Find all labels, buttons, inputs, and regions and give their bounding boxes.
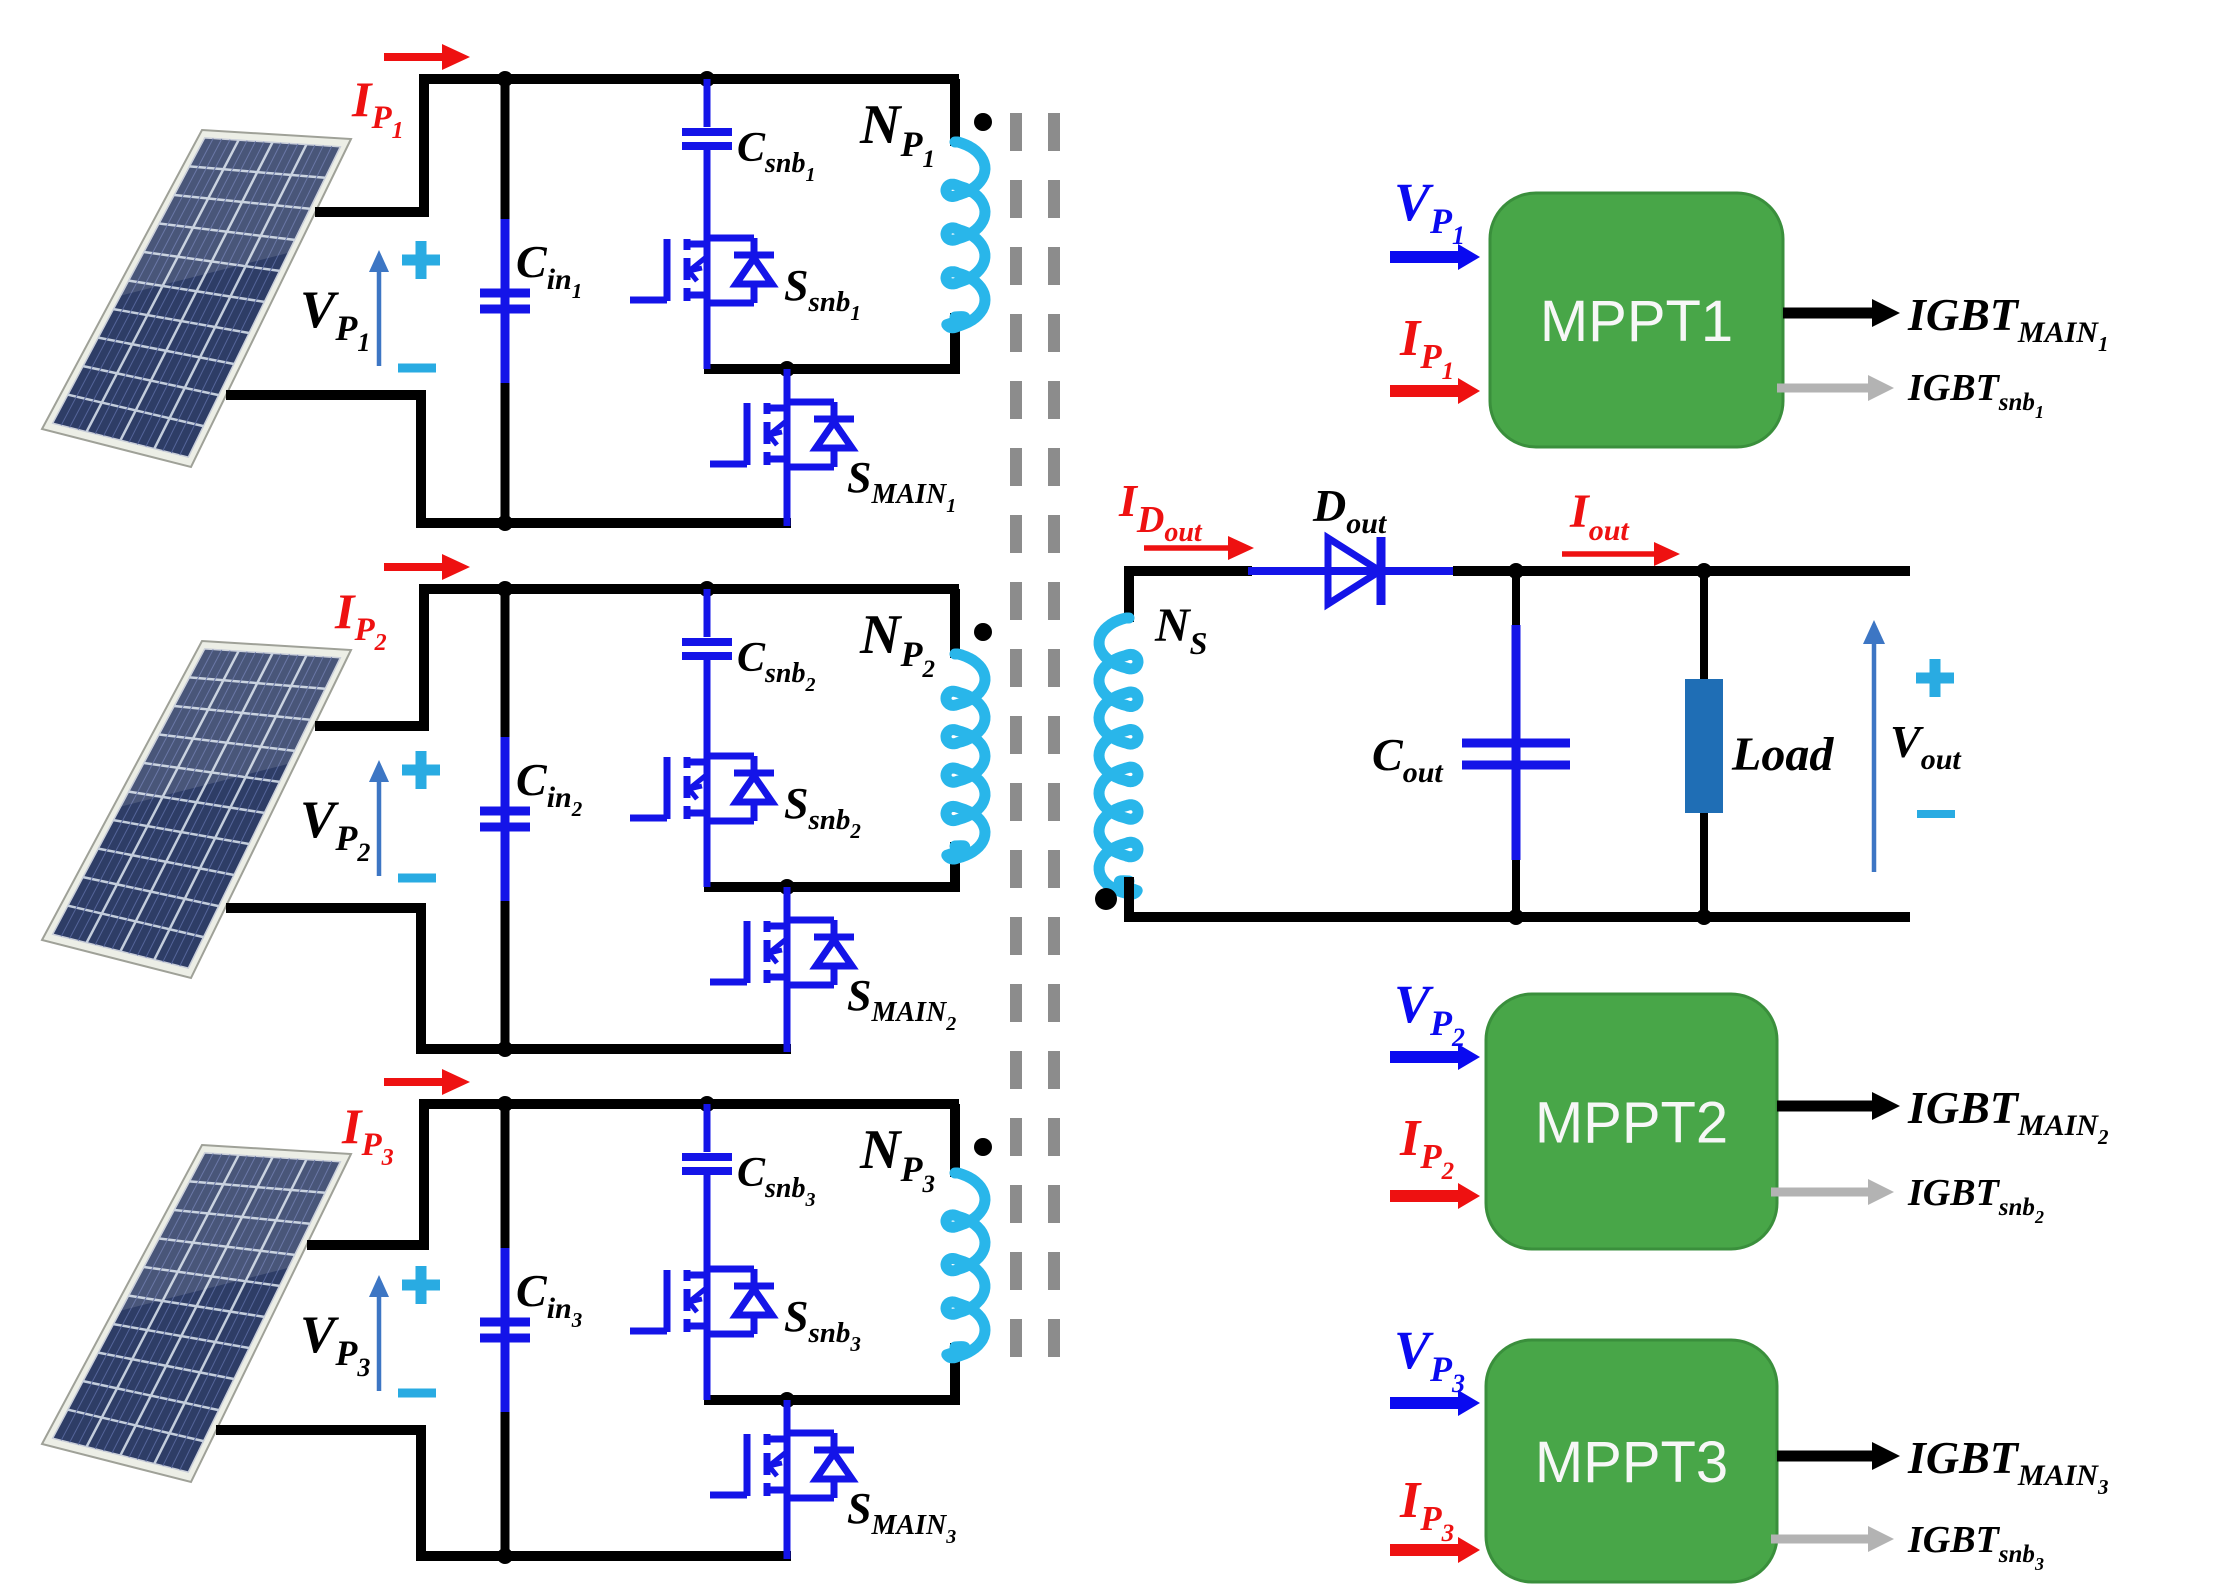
wire right branch (primary) circuit 2 — [950, 589, 960, 658]
wire PV2 negative terminal to bottom rail — [226, 908, 421, 1049]
capacitor Cin1 — [480, 293, 530, 309]
V_P3 sense arrow — [369, 1275, 389, 1391]
transistor Ssnb2 — [630, 756, 774, 821]
transformer isolation dashed line left — [1010, 113, 1022, 1372]
transistor Ssnb3 — [630, 1269, 774, 1334]
phase dot primary 3 — [974, 1138, 992, 1156]
primary winding N_P3 — [946, 1173, 985, 1358]
PV panel 1 — [42, 130, 351, 467]
junction dot top Csnb2 — [699, 581, 715, 597]
wire Ssnb3 source to mid rail — [704, 1334, 711, 1400]
capacitor Csnb3 — [682, 1157, 732, 1171]
capacitor Csnb3 lead — [704, 1104, 711, 1152]
V_out sense arrow — [1863, 620, 1885, 872]
black arrow IGBT_MAIN2 — [1777, 1092, 1900, 1120]
black arrow IGBT_MAIN1 — [1783, 299, 1900, 327]
wire Load branch — [1700, 571, 1708, 917]
wire secondary top rail — [1129, 571, 1252, 622]
wire PV3 positive terminal to input node — [307, 1104, 424, 1245]
PV panel 3 — [42, 1145, 351, 1482]
wire mid rail circuit 1 — [704, 364, 960, 374]
wire right branch (primary) circuit 1 — [950, 79, 960, 146]
Load resistor — [1685, 679, 1723, 813]
transformer isolation dashed line right — [1048, 113, 1060, 1372]
plus sign 1 — [402, 241, 440, 279]
wire Csnb2 to Ssnb2 — [704, 657, 711, 756]
black arrow IGBT_MAIN3 — [1777, 1442, 1900, 1470]
junction dot Cout bottom — [1508, 909, 1524, 925]
transistor Smain3 — [710, 1433, 854, 1498]
wire secondary left bottom — [1124, 877, 1134, 917]
junction dot Load top — [1696, 563, 1712, 579]
transistor Smain2 — [710, 920, 854, 985]
junction dot bottom Cin1 — [497, 515, 513, 531]
phase dot secondary — [1095, 888, 1117, 910]
svg-text:Load: Load — [1731, 728, 1834, 781]
capacitor Cin3 — [480, 1322, 530, 1338]
primary winding N_P1 — [946, 142, 985, 328]
primary winding N_P2 — [946, 654, 985, 859]
capacitor Cin2 branch wire — [501, 589, 510, 1049]
junction dot top Cin2 — [497, 581, 513, 597]
red arrow I_P3 into MPPT3 — [1390, 1537, 1480, 1563]
svg-text:MPPT1: MPPT1 — [1540, 289, 1733, 354]
wire PV2 positive terminal to input node — [315, 589, 424, 726]
minus sign 3 — [398, 1389, 436, 1398]
wire bottom rail circuit 2 — [416, 1044, 791, 1054]
plus sign 2 — [402, 751, 440, 789]
wire mid rail to Smain2 — [784, 887, 791, 920]
minus sign 1 — [398, 364, 436, 373]
wire PV1 negative terminal to bottom rail — [226, 395, 421, 523]
wire secondary bottom rail — [1124, 912, 1910, 922]
plus sign output — [1916, 659, 1954, 697]
wire mid rail circuit 2 — [704, 882, 960, 892]
capacitor Cout branch wire — [1512, 571, 1520, 917]
wire Smain2 source to bottom rail — [784, 985, 791, 1052]
svg-text:MPPT2: MPPT2 — [1535, 1091, 1728, 1156]
svg-text:MPPT3: MPPT3 — [1535, 1430, 1728, 1495]
junction dot Cout top — [1508, 563, 1524, 579]
capacitor Csnb2 — [682, 642, 732, 656]
capacitor Csnb1 lead — [704, 79, 711, 127]
wire top rail circuit 1 — [419, 74, 959, 84]
wire mid rail to Smain3 — [784, 1400, 791, 1433]
junction dot top Csnb3 — [699, 1096, 715, 1112]
red arrow I_P1 into MPPT1 — [1390, 378, 1480, 404]
wire top rail after diode — [1453, 566, 1910, 576]
wire PV3 negative terminal to bottom rail — [216, 1430, 421, 1556]
wire mid rail circuit 3 — [704, 1395, 960, 1405]
wire diode segment — [1248, 567, 1457, 575]
red arrow input current 3 — [384, 1069, 470, 1095]
capacitor Cin2 — [480, 811, 530, 827]
capacitor Cout — [1462, 743, 1570, 765]
wire Csnb3 to Ssnb3 — [704, 1172, 711, 1269]
wire Smain1 source to bottom rail — [784, 467, 791, 526]
transistor Ssnb1 — [630, 238, 774, 303]
wire top rail circuit 2 — [419, 584, 959, 594]
diode Dout — [1328, 537, 1381, 605]
red arrow input current 1 — [384, 44, 470, 70]
wire PV1 positive terminal to input node — [315, 79, 424, 212]
red arrow I_Dout — [1144, 536, 1254, 560]
secondary winding N_S — [1099, 618, 1138, 894]
capacitor Csnb2 lead — [704, 589, 711, 637]
MPPT2 controller block — [1486, 994, 1777, 1249]
junction dot mid rail 1 — [779, 361, 795, 377]
capacitor Cin1 branch wire — [501, 79, 510, 523]
junction dot mid rail 2 — [779, 879, 795, 895]
wire right branch (primary) circuit 3 — [950, 1104, 960, 1177]
junction dot mid rail 3 — [779, 1392, 795, 1408]
blue arrow V_P1 into MPPT1 — [1390, 244, 1480, 270]
phase dot primary 1 — [974, 113, 992, 131]
wire Ssnb1 source to mid rail — [704, 303, 711, 369]
minus sign 2 — [398, 874, 436, 883]
MPPT1 controller block — [1490, 193, 1783, 447]
blue arrow V_P3 into MPPT3 — [1390, 1390, 1480, 1416]
plus sign 3 — [402, 1266, 440, 1304]
wire Csnb1 to Ssnb1 — [704, 147, 711, 238]
transistor Smain1 — [710, 402, 854, 467]
red arrow I_P2 into MPPT2 — [1390, 1183, 1480, 1209]
blue arrow V_P2 into MPPT2 — [1390, 1044, 1480, 1070]
wire Smain3 source to bottom rail — [784, 1498, 791, 1559]
wire Ssnb2 source to mid rail — [704, 821, 711, 887]
wire bottom rail circuit 3 — [416, 1551, 791, 1561]
red arrow input current 2 — [384, 554, 470, 580]
junction dot bottom Cin2 — [497, 1041, 513, 1057]
V_P2 sense arrow — [369, 760, 389, 876]
capacitor Csnb1 — [682, 132, 732, 146]
red arrow I_out — [1562, 542, 1680, 566]
MPPT3 controller block — [1486, 1340, 1777, 1582]
PV panel 2 — [42, 641, 351, 978]
V_P1 sense arrow — [369, 250, 389, 366]
capacitor Cin3 branch wire — [501, 1104, 510, 1556]
junction dot top Cin1 — [497, 71, 513, 87]
gray arrow IGBT_snb2 — [1771, 1179, 1894, 1205]
minus sign output — [1917, 810, 1955, 818]
wire mid rail to Smain1 — [784, 369, 791, 402]
junction dot top Cin3 — [497, 1096, 513, 1112]
junction dot top Csnb1 — [699, 71, 715, 87]
wire bottom rail circuit 1 — [416, 518, 791, 528]
wire top rail circuit 3 — [419, 1099, 959, 1109]
gray arrow IGBT_snb3 — [1771, 1526, 1894, 1552]
gray arrow IGBT_snb1 — [1777, 375, 1894, 401]
junction dot bottom Cin3 — [497, 1548, 513, 1564]
junction dot Load bottom — [1696, 909, 1712, 925]
phase dot primary 2 — [974, 623, 992, 641]
